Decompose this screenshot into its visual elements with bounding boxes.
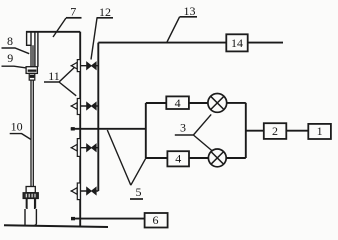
svg-text:7: 7	[70, 5, 76, 19]
svg-text:9: 9	[7, 51, 13, 65]
svg-text:5: 5	[136, 185, 142, 199]
svg-text:4: 4	[175, 96, 181, 110]
svg-text:14: 14	[231, 36, 243, 50]
svg-text:12: 12	[99, 5, 111, 19]
svg-text:3: 3	[180, 121, 186, 135]
svg-text:10: 10	[11, 120, 23, 134]
svg-text:11: 11	[48, 69, 60, 83]
svg-text:6: 6	[153, 213, 159, 227]
svg-text:2: 2	[272, 124, 278, 138]
svg-text:4: 4	[175, 152, 181, 166]
svg-text:8: 8	[7, 34, 13, 48]
svg-text:1: 1	[317, 124, 323, 138]
svg-text:13: 13	[184, 4, 196, 18]
